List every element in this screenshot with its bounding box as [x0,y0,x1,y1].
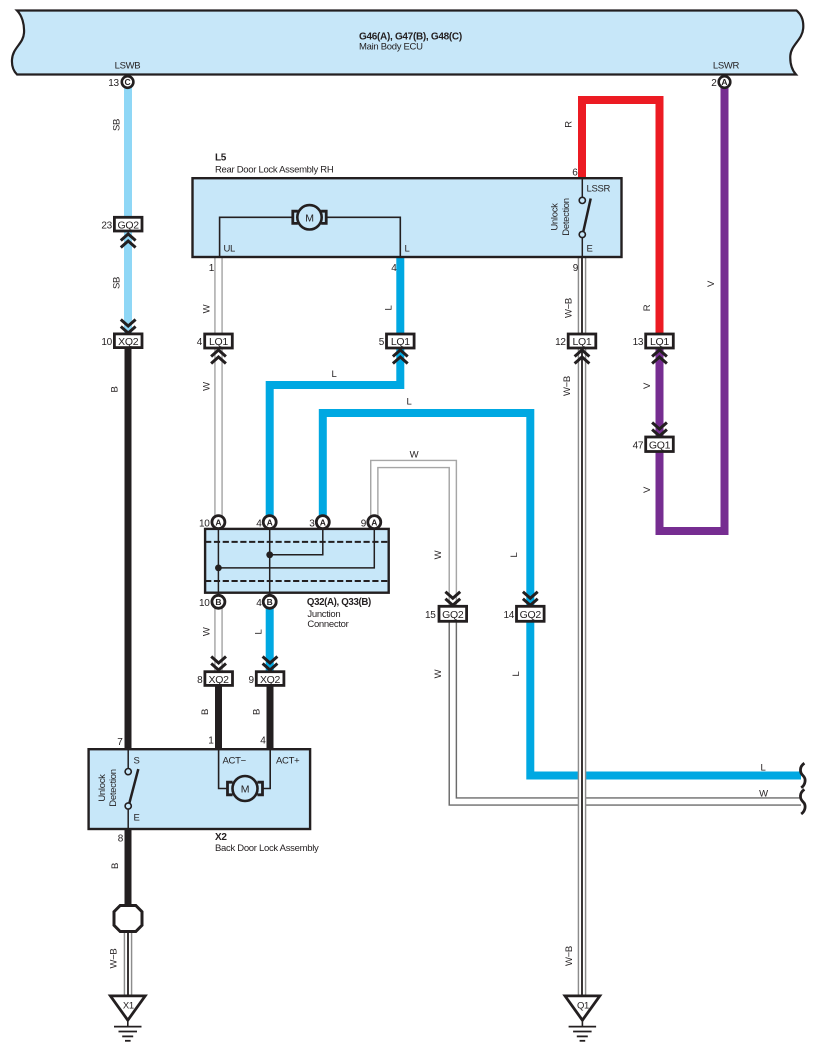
svg-text:XQ2: XQ2 [260,674,281,686]
svg-text:ACT+: ACT+ [276,756,300,767]
svg-text:L: L [332,369,337,380]
switch LSSR unlock detection (L5) [550,179,611,257]
svg-text:L: L [407,397,412,408]
svg-text:A: A [371,517,377,527]
pagebreak squiggle (L wire) [800,763,805,788]
svg-text:SB: SB [112,119,123,131]
svg-text:V: V [642,486,653,493]
svg-text:9: 9 [249,675,255,686]
svg-text:2: 2 [711,78,717,89]
svg-text:7: 7 [117,737,123,748]
connector 9 XQ2 [249,672,284,686]
svg-text:14: 14 [503,610,514,621]
svg-text:X1: X1 [123,1001,134,1012]
wire B (9 XQ2 to X2 pin4) [267,685,274,750]
svg-text:4: 4 [197,337,203,348]
svg-text:B: B [110,863,121,869]
pagebreak squiggle (W wire) [800,789,805,814]
svg-text:Q32(A), Q33(B): Q32(A), Q33(B) [307,597,371,608]
svg-text:4: 4 [256,598,262,609]
svg-text:GQ2: GQ2 [520,609,542,621]
connector 13 LQ1 [633,334,674,348]
junction connector Q32(A), Q33(B) [205,522,389,630]
wire L (L5 pin4 to 5 LQ1) [396,257,404,335]
switch unlock detection (X2) [97,750,140,829]
svg-text:W−B: W−B [562,376,573,396]
junction pin 10B [199,595,225,609]
svg-text:W−B: W−B [564,946,575,966]
svg-text:Unlock: Unlock [97,774,108,802]
wire W (L5 pin1 UL to 4 LQ1) [214,257,223,335]
svg-text:10: 10 [101,337,112,348]
svg-text:A: A [721,77,727,87]
svg-text:ACT−: ACT− [223,756,247,767]
svg-text:W: W [202,304,213,313]
chevron up (below 13 LQ1) [652,350,667,364]
svg-text:Unlock: Unlock [550,203,561,231]
wire L (5 LQ1 down, left, down to junction 4A) [270,347,401,522]
svg-text:LSWR: LSWR [713,61,740,72]
wire W (junction 9A up, right, down to 15 GQ2) [374,464,453,607]
svg-text:Detection: Detection [561,198,572,235]
svg-text:LQ1: LQ1 [209,336,228,348]
svg-text:4: 4 [260,736,266,747]
svg-text:R: R [564,121,575,128]
svg-text:5: 5 [379,337,385,348]
svg-text:GQ2: GQ2 [118,220,140,232]
svg-text:B: B [110,386,121,392]
wire W (4 LQ1 to junction 10A) [214,347,223,522]
svg-text:XQ2: XQ2 [209,674,230,686]
connector 14 GQ2 [503,606,544,621]
wire L (junction 3A up, right, down to 14 GQ2) [323,413,531,607]
splice octagon (below X2 pin 8) [114,906,142,932]
wire W-B (L5 pin9 E to 12 LQ1) [578,257,587,335]
svg-text:1: 1 [208,736,214,747]
svg-text:8: 8 [197,675,203,686]
svg-text:LQ1: LQ1 [650,336,669,348]
chevron down (above 14 GQ2) [523,592,538,606]
junction pin 3A [309,516,329,530]
L5 Rear Door Lock Assembly RH box [193,153,622,258]
svg-text:UL: UL [224,244,236,255]
svg-text:8: 8 [118,834,124,845]
svg-text:GQ1: GQ1 [649,440,671,452]
junction pin 4B [256,595,276,609]
svg-text:Connector: Connector [307,619,348,630]
svg-text:9: 9 [573,263,579,274]
chevron up (below 12 LQ1) [575,350,590,364]
svg-text:Back Door Lock Assembly: Back Door Lock Assembly [215,843,319,854]
svg-text:W: W [759,788,768,799]
chevron down (above 47 GQ1) [652,423,667,437]
chevron down (above 8 XQ2) [211,657,226,671]
connector 47 GQ1 [633,437,674,452]
motor M (L5) [220,205,410,256]
wire SB (banner pin 13C to GQ2) [124,85,132,219]
svg-text:LQ1: LQ1 [391,336,410,348]
connector 5 LQ1 [379,334,414,348]
motor M (X2) [219,750,301,801]
wire B (8 XQ2 to X2 pin1) [215,685,222,750]
wire L (junction 4B to 9 XQ2) [266,602,274,672]
wire W-B (octagon to ground X1) [124,931,133,996]
X2 Back Door Lock Assembly box [89,749,319,854]
wire B (X2 pin8 to octagon splice) [125,828,132,906]
svg-text:Detection: Detection [108,769,119,806]
chevron up (below 5 LQ1) [393,350,408,364]
svg-text:LSSR: LSSR [587,184,611,195]
svg-text:W: W [433,669,444,678]
junction pin 4A [256,516,276,530]
svg-text:V: V [642,382,653,389]
chevron down (above 10 XQ2) [121,320,136,334]
svg-text:E: E [587,244,593,255]
wire R (L5 pin6 up, over, down to 13 LQ1) [582,100,660,335]
connector 4 LQ1 [197,334,233,348]
svg-text:1: 1 [209,263,215,274]
svg-text:W−B: W−B [564,298,575,318]
svg-text:R: R [642,304,653,311]
svg-text:LSWB: LSWB [115,61,141,72]
connector 23 GQ2 [101,217,142,231]
svg-text:W: W [433,550,444,559]
svg-text:W: W [202,382,213,391]
svg-text:23: 23 [101,221,112,232]
connector 15 GQ2 [425,606,467,621]
svg-text:Q1: Q1 [577,1001,589,1012]
svg-text:X2: X2 [215,832,227,843]
svg-text:L: L [405,244,410,255]
svg-text:47: 47 [633,441,644,452]
connector 12 LQ1 [555,334,596,348]
terminal 2 A (banner) [711,76,730,89]
svg-text:10: 10 [199,519,210,530]
wire B (XQ2 to X2 pin7) [125,347,132,750]
wire V (47 GQ1 down, right, up to banner pin 2A) [660,85,725,531]
junction pin 10A [199,516,225,530]
chevron up (below 4 LQ1) [211,350,226,364]
svg-text:M: M [305,212,313,224]
svg-text:Main Body ECU: Main Body ECU [359,42,423,53]
chevron up (below 23 GQ2) [121,234,136,248]
svg-text:B: B [215,597,221,607]
terminal 13 C (banner) [108,76,133,89]
svg-text:W−B: W−B [109,949,120,969]
svg-text:Rear Door Lock Assembly RH: Rear Door Lock Assembly RH [215,165,334,176]
svg-text:L: L [384,305,395,310]
connector 8 XQ2 [197,672,232,686]
svg-text:10: 10 [199,598,210,609]
chevron down (above 15 GQ2) [445,592,460,606]
svg-text:12: 12 [555,337,566,348]
wire W (15 GQ2 down, right to pagebreak) [453,621,801,802]
connector 10 XQ2 [101,334,142,348]
svg-text:LQ1: LQ1 [573,336,592,348]
svg-text:L: L [509,552,520,557]
wire W-B (12 LQ1 to ground Q1) [578,347,587,996]
svg-text:4: 4 [256,519,262,530]
svg-text:B: B [267,597,273,607]
svg-text:A: A [267,517,273,527]
svg-text:9: 9 [361,519,367,530]
Main Body ECU banner [12,11,803,75]
svg-text:4: 4 [391,263,397,274]
svg-text:A: A [320,517,326,527]
svg-text:13: 13 [108,78,119,89]
svg-text:L: L [511,671,522,676]
svg-text:6: 6 [572,168,578,179]
svg-text:B: B [200,709,211,715]
svg-text:W: W [202,627,213,636]
ground X1 [110,996,145,1041]
svg-text:3: 3 [309,519,315,530]
wire W (junction 10B to 8 XQ2) [214,602,223,672]
svg-text:B: B [252,709,263,715]
svg-text:V: V [706,280,717,287]
svg-text:15: 15 [425,610,436,621]
svg-text:A: A [215,517,221,527]
svg-text:W: W [410,450,419,461]
svg-text:E: E [134,813,140,824]
svg-text:SB: SB [112,277,123,289]
svg-text:S: S [134,756,140,767]
svg-text:C: C [125,77,131,87]
ground Q1 [565,996,600,1041]
svg-text:L: L [254,629,265,634]
svg-text:L: L [761,762,766,773]
junction pin 9A [361,516,381,530]
svg-text:13: 13 [633,337,644,348]
wire L (14 GQ2 down, right to pagebreak) [530,621,801,776]
svg-text:GQ2: GQ2 [442,609,464,621]
chevron down (above 9 XQ2) [263,657,278,671]
svg-text:XQ2: XQ2 [118,336,139,348]
svg-text:M: M [241,784,249,796]
wire V (13 LQ1 down to 47 GQ1) [656,347,664,438]
wire SB (GQ2 to XQ2) [124,230,132,335]
svg-text:L5: L5 [215,153,227,164]
